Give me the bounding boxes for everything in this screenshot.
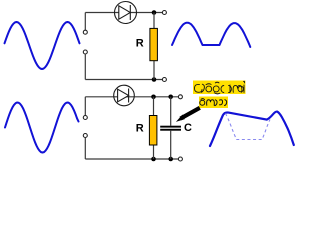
output waveform 1 (half-wave rectified, top right) [172,23,250,47]
resistor R1 body [150,28,158,60]
wire: bottom circuit bottom rail [85,158,178,160]
capacitor C bottom plate [160,129,181,131]
junction dot: top circuit output bottom [152,77,157,82]
highlight box line 2 [199,97,228,109]
input sine wave 2 (bottom left) [5,103,79,153]
junction dot: top circuit output top [152,10,157,15]
wire: top circuit left vertical upper [84,13,86,31]
terminal: top circuit output bottom [162,78,166,82]
terminal: bottom circuit output top [178,95,182,99]
wire: resistor R2 leads [153,97,155,159]
wire: top circuit top rail [85,12,162,14]
resistor R2 body [149,116,157,146]
terminal: top circuit input lower [83,50,87,54]
output waveform 2 solid (smoothed) [210,112,294,146]
terminal: top circuit output top [162,11,166,15]
terminal: bottom circuit output bottom [178,157,182,161]
terminal: bottom circuit input upper [83,116,87,120]
svg-text:R: R [136,38,144,50]
capacitor C top plate [160,126,181,128]
svg-text:R: R [136,123,144,135]
wire: top circuit left vertical lower [84,54,86,80]
junction dot: bottom circuit resistor bottom [151,157,156,162]
junction dot: bottom circuit capacitor top [168,95,173,100]
output waveform 2 dashed (unsmoothed reference) [226,114,271,140]
wire: bottom circuit left vertical lower [84,138,86,160]
junction dot: bottom circuit resistor top [151,95,156,100]
terminal: top circuit input upper [83,30,87,34]
junction dot: bottom circuit capacitor bottom [168,157,173,162]
wire: resistor R1 leads [153,13,155,80]
diode D2 (bottom circuit) [114,85,135,106]
wire: bottom circuit left vertical upper [84,97,86,116]
highlight box line 1 [193,81,246,95]
text line 1 (Sinhala approximation) [195,81,245,94]
diode D1 (top circuit) [115,2,137,24]
wire: top circuit bottom rail [85,79,162,81]
wire: bottom circuit top rail [85,96,178,98]
svg-text:C: C [184,122,192,134]
text line 2 (Sinhala approximation) [200,99,227,106]
terminal: bottom circuit input lower [83,134,87,138]
input sine wave 1 (top left) [5,22,80,69]
annotation arrow [181,108,200,119]
wire: capacitor C leads [170,97,172,159]
